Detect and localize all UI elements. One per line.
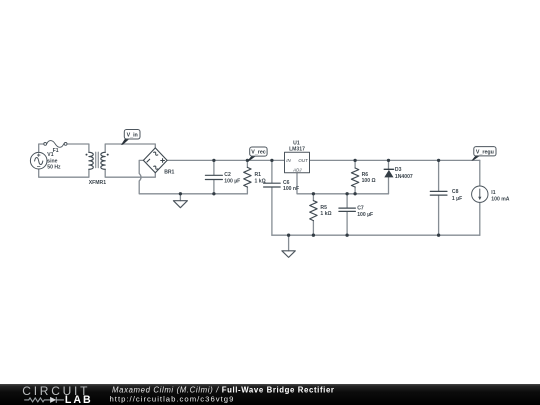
wire ground 1 stem [179, 194, 181, 201]
svg-text:100 nF: 100 nF [283, 186, 299, 192]
capacitor C6 [264, 183, 281, 187]
svg-text:XFMR1: XFMR1 [89, 180, 106, 186]
diode D3 [384, 168, 393, 170]
svg-text:OUT: OUT [298, 158, 308, 163]
wire C7 leads [346, 194, 348, 235]
svg-text:sine: sine [47, 158, 57, 164]
wire R5 leads [312, 194, 314, 235]
node junction dots (all nets) [179, 159, 441, 237]
svg-text:R6: R6 [362, 172, 369, 178]
fuse F1 [44, 141, 67, 148]
transformer XFMR1 [89, 152, 105, 169]
wire C8 leads [438, 160, 440, 235]
wire I1 leads [479, 160, 481, 235]
svg-text:V_in: V_in [127, 132, 138, 138]
capacitor C2 [205, 175, 222, 179]
svg-text:100 µF: 100 µF [224, 178, 240, 184]
wire bottom rail 2 [272, 234, 480, 236]
resistor R5 [310, 201, 317, 221]
capacitor C8 [430, 191, 447, 195]
wire BR1 minus terminal down with hop to bottom rail [139, 160, 247, 193]
wire D3 leads [388, 160, 390, 193]
svg-text:I1: I1 [491, 190, 495, 196]
wire U1 ADJ to adj rail [297, 173, 389, 194]
wire R6 leads [354, 160, 356, 193]
svg-text:V_rec: V_rec [251, 150, 265, 156]
node V_in flag [121, 130, 140, 145]
wire transformer secondary top to BR1 top [105, 144, 155, 152]
wire top rail U1 OUT to I1 corner [310, 159, 480, 161]
logo wire with resistor and diode [24, 397, 64, 403]
svg-text:100 mA: 100 mA [491, 197, 509, 203]
wire ground 2 stem [288, 235, 290, 251]
svg-text:BR1: BR1 [164, 169, 174, 175]
svg-text:R1: R1 [255, 172, 262, 178]
capacitor C7 [339, 208, 356, 211]
svg-text:D3: D3 [395, 167, 402, 173]
svg-text:1 µF: 1 µF [452, 196, 462, 202]
ground 1 [173, 201, 187, 208]
svg-text:Maxamed Cilmi (M.Cilmi) / Full: Maxamed Cilmi (M.Cilmi) / Full-Wave Brid… [112, 385, 335, 394]
wire fuse to transformer primary top [67, 144, 89, 152]
wire top rail BR1 to U1 IN [167, 159, 284, 161]
svg-text:C7: C7 [357, 205, 364, 211]
resistor R1 [244, 167, 251, 187]
wire transformer secondary bottom to BR1 bottom [105, 169, 155, 177]
wire V1 bottom to transformer primary bottom [39, 169, 89, 177]
node V_rec flag [248, 147, 268, 161]
svg-text:50 Hz: 50 Hz [47, 165, 61, 171]
wire C2 leads [213, 160, 215, 193]
svg-text:100 Ω: 100 Ω [362, 178, 376, 184]
current source I1 [472, 186, 488, 202]
svg-text:http://circuitlab.com/c36vtg9: http://circuitlab.com/c36vtg9 [110, 394, 235, 403]
svg-text:C8: C8 [452, 189, 459, 195]
svg-text:C6: C6 [283, 180, 290, 186]
svg-text:100 µF: 100 µF [357, 212, 373, 218]
svg-text:LAB: LAB [65, 394, 93, 405]
wire R1 leads [246, 160, 248, 193]
node V_regu flag [471, 147, 496, 161]
bridge rectifier BR1 [143, 148, 167, 173]
svg-text:C2: C2 [224, 172, 231, 178]
svg-text:1 kΩ: 1 kΩ [320, 211, 331, 217]
svg-text:V1: V1 [47, 152, 53, 158]
svg-text:LM317: LM317 [289, 146, 305, 152]
wire C6 leads [271, 160, 273, 235]
wire V1 top to fuse [39, 144, 44, 153]
svg-text:1N4007: 1N4007 [395, 174, 413, 180]
svg-text:V_regu: V_regu [476, 149, 494, 155]
svg-text:ADJ: ADJ [292, 168, 302, 173]
resistor R6 [351, 168, 358, 187]
voltage source V1 [30, 152, 47, 169]
regulator U1 LM317 [285, 152, 310, 173]
ground 2 [282, 251, 295, 258]
svg-text:R5: R5 [320, 205, 327, 211]
